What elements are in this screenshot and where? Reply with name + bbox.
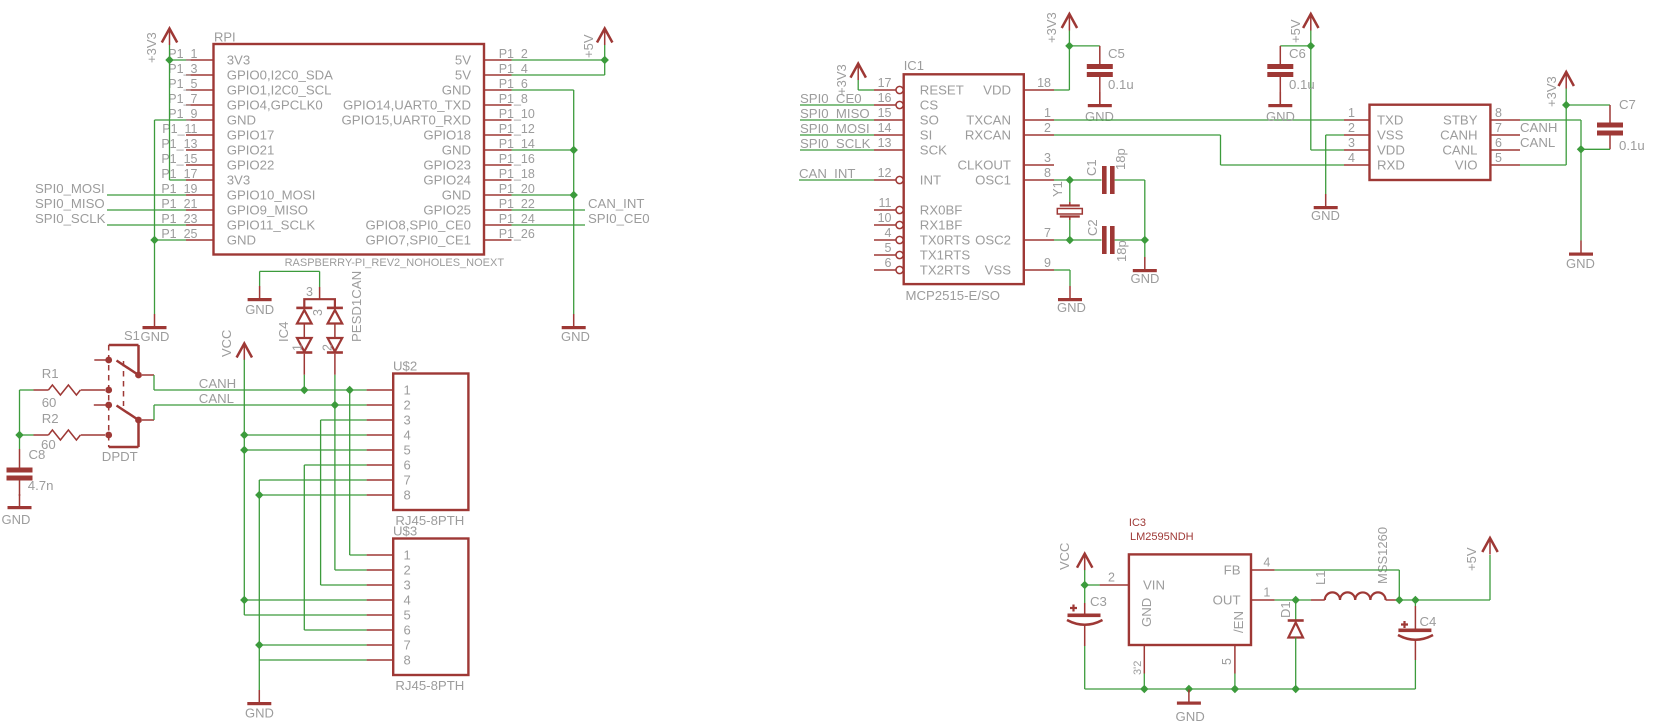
- transceiver pin 3 VDD: [1344, 149, 1370, 151]
- svg-text:2: 2: [404, 563, 411, 578]
- ground (STBY/C7): [1580, 241, 1582, 253]
- ground (C5): [1099, 92, 1101, 104]
- transceiver pin 1 TXD: [1344, 119, 1370, 121]
- junction VCC/U$3 pin4: [240, 596, 248, 604]
- RPI pin P1_19 (GPIO10_MOSI): [186, 194, 214, 196]
- svg-text:5: 5: [885, 241, 892, 255]
- svg-text:MSS1260: MSS1260: [1375, 527, 1390, 584]
- svg-text:INT: INT: [920, 173, 941, 188]
- junction P1_1: [165, 56, 173, 64]
- U$2 pin 4: [367, 434, 394, 436]
- svg-text:P1_12: P1_12: [499, 122, 535, 136]
- svg-text:IC4: IC4: [276, 321, 291, 342]
- wire U$2 pin6 to U$3 pin6: [304, 464, 366, 466]
- wire SPI0_CE0 from P1_24: [512, 224, 586, 226]
- junction U$2 pin8/gnd: [255, 491, 263, 499]
- wire CAN_INT from P1_22: [512, 209, 586, 211]
- S1 contacts: [105, 357, 112, 364]
- svg-text:0.1u: 0.1u: [1108, 77, 1134, 92]
- U$2 pin 5: [367, 449, 394, 451]
- IC1 pin 7 OSC2: [1024, 239, 1054, 241]
- RPI pin P1_5 (GPIO1,I2C0_SCL): [186, 89, 214, 91]
- svg-text:CANL: CANL: [1520, 135, 1555, 150]
- svg-text:VCC: VCC: [219, 330, 234, 357]
- svg-text:CANH: CANH: [1440, 128, 1477, 143]
- svg-text:GND: GND: [442, 83, 471, 98]
- IC3 pin 1 OUT: [1251, 599, 1275, 601]
- junction GND pin: [1140, 685, 1148, 693]
- svg-text:P1_15: P1_15: [161, 152, 197, 166]
- wire VIO to +3V3: [1520, 164, 1566, 166]
- svg-text:GND: GND: [442, 143, 471, 158]
- RPI pin P1_13 (GPIO21): [186, 149, 214, 151]
- RPI pin P1_2 (5V): [484, 59, 512, 61]
- svg-text:SI: SI: [920, 128, 932, 143]
- wire OSC1 node: [1054, 179, 1102, 181]
- RPI pin P1_14 (GND): [484, 149, 512, 151]
- svg-text:18p: 18p: [1114, 240, 1129, 262]
- IC1 pin 14 SI: [874, 134, 904, 136]
- wire GND P1_9/P1_25: [155, 119, 187, 121]
- RPI pin P1_4 (5V): [484, 74, 512, 76]
- svg-text:VDD: VDD: [1377, 143, 1405, 158]
- svg-text:8: 8: [404, 653, 411, 668]
- svg-text:GPIO24: GPIO24: [423, 173, 471, 188]
- svg-text:3'2: 3'2: [1132, 661, 1144, 675]
- connector U$3 RJ45-8PTH: [393, 539, 468, 676]
- svg-text:0.1u: 0.1u: [1619, 138, 1645, 153]
- RPI pin P1_7 (GPIO4,GPCLK0): [186, 104, 214, 106]
- svg-text:GND: GND: [227, 233, 256, 248]
- junction R2/C8: [15, 431, 23, 439]
- wire VSS to ground: [1326, 134, 1344, 136]
- svg-text:TX1RTS: TX1RTS: [920, 248, 971, 263]
- svg-text:P1_23: P1_23: [161, 212, 197, 226]
- svg-text:6: 6: [885, 256, 892, 270]
- wire GND P1_6/P1_14/P1_20: [512, 89, 574, 91]
- svg-text:GPIO10_MOSI: GPIO10_MOSI: [227, 188, 316, 203]
- junction C4: [1411, 596, 1419, 604]
- svg-text:U$2: U$2: [393, 359, 417, 374]
- wire OUT node: [1275, 599, 1311, 601]
- svg-text:VIO: VIO: [1455, 158, 1478, 173]
- svg-text:12: 12: [878, 166, 892, 180]
- svg-text:CANH: CANH: [199, 376, 236, 391]
- svg-text:P1_6: P1_6: [499, 77, 528, 91]
- junction OSC2/Y1: [1066, 236, 1074, 244]
- U$2 pin 2: [367, 404, 394, 406]
- capacitor C3 (electrolytic): [1084, 585, 1086, 603]
- svg-text:10: 10: [878, 211, 892, 225]
- junction C7/GND: [1577, 145, 1585, 153]
- svg-text:P1_20: P1_20: [499, 182, 535, 196]
- svg-text:13: 13: [878, 136, 892, 150]
- svg-text:15: 15: [878, 106, 892, 120]
- svg-text:7: 7: [404, 473, 411, 488]
- svg-text:GPIO21: GPIO21: [227, 143, 275, 158]
- wire VCC to U$2 pin5: [244, 449, 366, 451]
- svg-text:1: 1: [404, 383, 411, 398]
- ground (RJ45 chain): [258, 690, 260, 702]
- junction CANH/U$3 branch: [346, 386, 354, 394]
- svg-text:3: 3: [404, 413, 411, 428]
- RPI pin P1_1 (3V3): [186, 59, 214, 61]
- RPI pin P1_25 (GND): [186, 239, 214, 241]
- svg-text:GPIO1,I2C0_SCL: GPIO1,I2C0_SCL: [227, 83, 332, 98]
- capacitor C6 0.1u: [1279, 46, 1281, 64]
- power +3V3 (right): [1559, 72, 1574, 86]
- connector U$2 RJ45-8PTH: [393, 374, 468, 511]
- ground (IC1 VSS): [1069, 286, 1071, 298]
- svg-text:GPIO23: GPIO23: [423, 158, 471, 173]
- svg-text:8: 8: [404, 488, 411, 503]
- svg-text:4: 4: [404, 593, 411, 608]
- svg-text:11: 11: [879, 196, 892, 210]
- svg-text:R2: R2: [42, 411, 59, 426]
- svg-text:C4: C4: [1420, 614, 1437, 629]
- junction U$3 pin7/gnd: [255, 641, 263, 649]
- U$3 pin 1: [367, 554, 394, 556]
- wire +3V3 to P1_1 and P1_17: [169, 45, 171, 180]
- svg-text:GND: GND: [245, 302, 274, 317]
- svg-text:3: 3: [306, 285, 313, 299]
- IC IC3: LM2595NDH: [1129, 554, 1251, 645]
- svg-text:4: 4: [404, 428, 411, 443]
- svg-text:SPI0_MOSI: SPI0_MOSI: [800, 121, 870, 136]
- svg-text:MCP2515-E/SO: MCP2515-E/SO: [906, 288, 1001, 303]
- svg-text:6: 6: [404, 623, 411, 638]
- wire pole1 to CANH: [142, 374, 154, 376]
- svg-text:DPDT: DPDT: [102, 449, 138, 464]
- ground (C8): [19, 494, 21, 506]
- transceiver pin 8 STBY: [1490, 119, 1520, 121]
- svg-text:U$3: U$3: [393, 524, 417, 539]
- svg-text:GPIO17: GPIO17: [227, 128, 275, 143]
- S1 poles: [135, 372, 142, 379]
- svg-text:P1_4: P1_4: [499, 62, 528, 76]
- junction VCC/C3: [1081, 581, 1089, 589]
- svg-text:GND: GND: [1566, 256, 1595, 271]
- transceiver pin 2 VSS: [1344, 134, 1370, 136]
- svg-text:7: 7: [1495, 121, 1502, 135]
- svg-text:7: 7: [404, 638, 411, 653]
- junction +5V: [601, 56, 609, 64]
- svg-text:1: 1: [1263, 586, 1270, 600]
- IC1 pin 5 TX1RTS: [874, 254, 896, 256]
- svg-text:OUT: OUT: [1213, 593, 1241, 608]
- svg-text:GND: GND: [1139, 598, 1154, 627]
- svg-text:C1: C1: [1084, 159, 1099, 176]
- IC1 pin 10 RX1BF: [874, 224, 896, 226]
- svg-text:7: 7: [1044, 226, 1051, 240]
- wire FB feedback: [1275, 569, 1400, 571]
- svg-text:+3V3: +3V3: [144, 32, 159, 63]
- IC1 pin 8 OSC1: [1024, 179, 1054, 181]
- svg-text:P1_10: P1_10: [499, 107, 535, 121]
- junction P1_25: [150, 236, 158, 244]
- svg-text:TXD: TXD: [1377, 113, 1403, 128]
- svg-text:SCK: SCK: [920, 143, 947, 158]
- RPI pin P1_15 (GPIO22): [186, 164, 214, 166]
- svg-text:GPIO18: GPIO18: [423, 128, 471, 143]
- wire CANH to U$3 pin1: [349, 390, 351, 555]
- svg-text:C7: C7: [1619, 97, 1636, 112]
- svg-text:4: 4: [885, 226, 892, 240]
- capacitor C2 18p: [1102, 226, 1107, 254]
- svg-text:9: 9: [1044, 256, 1051, 270]
- junction C1/C2: [1141, 236, 1149, 244]
- svg-text:CANL: CANL: [1442, 143, 1477, 158]
- junction +5V/C6: [1307, 42, 1315, 50]
- wire PESD pin3 to ground: [260, 270, 320, 272]
- svg-text:60: 60: [42, 395, 57, 410]
- svg-text:GND: GND: [1131, 271, 1160, 286]
- svg-text:SPI0_CE0: SPI0_CE0: [588, 211, 650, 226]
- junction D1 bottom: [1292, 685, 1300, 693]
- svg-text:VIN: VIN: [1143, 578, 1165, 593]
- U$2 pin 3: [367, 419, 394, 421]
- svg-text:RJ45-8PTH: RJ45-8PTH: [395, 678, 464, 693]
- junction VCC/U$2 pin4: [240, 431, 248, 439]
- RPI pin P1_17 (3V3): [186, 179, 214, 181]
- svg-text:VSS: VSS: [1377, 128, 1404, 143]
- svg-text:+5V: +5V: [1288, 19, 1303, 43]
- svg-text:SO: SO: [920, 113, 939, 128]
- U$3 pin 6: [367, 629, 394, 631]
- ground (IC3): [1188, 690, 1190, 702]
- svg-text:FB: FB: [1224, 563, 1241, 578]
- capacitor C7 0.1u: [1566, 104, 1610, 106]
- junction L1/FB: [1395, 596, 1403, 604]
- RPI pin P1_21 (GPIO9_MISO): [186, 209, 214, 211]
- svg-text:GND: GND: [245, 706, 274, 721]
- svg-text:3: 3: [1348, 136, 1355, 150]
- U$2 pin 6: [367, 464, 394, 466]
- RPI pin P1_23 (GPIO11_SCLK): [186, 224, 214, 226]
- svg-text:GND: GND: [1085, 109, 1114, 124]
- svg-text:2: 2: [321, 344, 335, 351]
- svg-text:P1_18: P1_18: [499, 167, 535, 181]
- junction VDD/+3V3: [1065, 42, 1073, 50]
- IC U1: MCP2515-E/SO (IC1): [904, 74, 1024, 284]
- svg-text:IC3: IC3: [1129, 517, 1146, 529]
- svg-text:C2: C2: [1085, 219, 1100, 236]
- IC1 pin 4 TX0RTS: [874, 239, 896, 241]
- wire U$3 pin7: [259, 644, 366, 646]
- svg-text:LM2595NDH: LM2595NDH: [1130, 531, 1194, 543]
- svg-text:2: 2: [1108, 571, 1115, 585]
- svg-text:P1_24: P1_24: [499, 212, 535, 226]
- wire OSC2 node: [1054, 239, 1102, 241]
- power VCC (RJ45 power): [237, 344, 252, 358]
- U$3 pin 2: [367, 569, 394, 571]
- IC U2: CAN transceiver (MCP2551): [1370, 105, 1491, 180]
- svg-text:RXD: RXD: [1377, 158, 1405, 173]
- IC1 pin 6 TX2RTS: [874, 269, 896, 271]
- IC3 pin 4 FB: [1251, 569, 1275, 571]
- svg-text:P1_19: P1_19: [161, 182, 197, 196]
- svg-text:+5V: +5V: [581, 34, 596, 58]
- ground (C1/C2): [1144, 240, 1146, 257]
- svg-text:P1_11: P1_11: [162, 122, 197, 136]
- junction +3V3/C7: [1562, 101, 1570, 109]
- wire U$3 pin8: [259, 659, 366, 661]
- svg-text:14: 14: [878, 121, 892, 135]
- svg-text:P1_3: P1_3: [168, 62, 197, 76]
- PESD diode pair pin 1: [296, 307, 312, 310]
- U$2 pin 1: [367, 389, 394, 391]
- ground (below RPi left): [154, 314, 156, 326]
- svg-text:8: 8: [1044, 166, 1051, 180]
- svg-text:Y1: Y1: [1050, 181, 1065, 197]
- svg-text:GND: GND: [442, 188, 471, 203]
- IC1 pin 12 INT: [874, 179, 896, 181]
- IC1 pin 1 TXCAN: [1024, 119, 1054, 121]
- svg-text:RESET: RESET: [920, 83, 964, 98]
- RPI pin P1_12 (GPIO18): [484, 134, 512, 136]
- svg-text:OSC2: OSC2: [975, 233, 1011, 248]
- IC1 pin 18 VDD: [1024, 89, 1054, 91]
- junction OUT/D1: [1292, 596, 1300, 604]
- wire U$2 pin8: [259, 494, 366, 496]
- RPI pin P1_18 (GPIO24): [484, 179, 512, 181]
- IC3 pin 3 GND (bottom): [1143, 645, 1145, 674]
- svg-text:P1_17: P1_17: [161, 167, 197, 181]
- svg-text:GND: GND: [1057, 300, 1086, 315]
- svg-text:GND: GND: [141, 329, 170, 344]
- wire P1_2 to +5V: [512, 59, 605, 61]
- svg-text:CAN_INT: CAN_INT: [588, 196, 644, 211]
- U$3 pin 3: [367, 584, 394, 586]
- junction /EN pin: [1231, 685, 1239, 693]
- capacitor C5 0.1u: [1099, 46, 1101, 64]
- wire TXCAN to TXD: [1054, 119, 1344, 121]
- svg-text:GPIO25: GPIO25: [423, 203, 471, 218]
- IC3 pin 5 /EN (bottom): [1234, 645, 1236, 674]
- svg-text:GPIO7,SPI0_CE1: GPIO7,SPI0_CE1: [365, 233, 471, 248]
- svg-text:TX0RTS: TX0RTS: [920, 233, 971, 248]
- ground (below RPi right): [573, 314, 575, 326]
- svg-text:RASPBERRY-PI_REV2_NOHOLES_NOEX: RASPBERRY-PI_REV2_NOHOLES_NOEXT: [285, 257, 505, 269]
- svg-text:P1_9: P1_9: [168, 107, 197, 121]
- junction gnd symbol: [1185, 685, 1193, 693]
- svg-text:SPI0_SCLK: SPI0_SCLK: [35, 211, 106, 226]
- svg-text:GND: GND: [1266, 109, 1295, 124]
- S1 contact stubs: [94, 359, 108, 361]
- IC1 pin 16 CS: [874, 104, 896, 106]
- U$3 pin 5: [367, 614, 394, 616]
- svg-text:1: 1: [1044, 106, 1051, 120]
- wire RXCAN to RXD: [1054, 134, 1221, 136]
- U$2 pin 8: [367, 494, 394, 496]
- svg-text:STBY: STBY: [1443, 113, 1478, 128]
- RPI pin P1_6 (GND): [484, 89, 512, 91]
- ground (C6): [1279, 92, 1281, 104]
- IC1 pin 13 SCK: [874, 149, 904, 151]
- svg-text:GPIO0,I2C0_SDA: GPIO0,I2C0_SDA: [227, 68, 333, 83]
- U$3 pin 4: [367, 599, 394, 601]
- svg-text:VDD: VDD: [983, 83, 1011, 98]
- svg-text:GPIO8,SPI0_CE0: GPIO8,SPI0_CE0: [365, 218, 471, 233]
- RPI pin P1_26 (GPIO7,SPI0_CE1): [484, 239, 512, 241]
- wire ground rail: [1085, 688, 1416, 690]
- svg-text:2: 2: [1044, 121, 1051, 135]
- svg-text:S1: S1: [124, 328, 140, 343]
- wire pole2 to CANL: [142, 419, 154, 421]
- IC1 pin 3 CLKOUT: [1024, 164, 1054, 166]
- ground (transceiver VSS): [1325, 194, 1327, 206]
- svg-text:C8: C8: [29, 447, 46, 462]
- wire VCC to U$2 pin4: [244, 434, 366, 436]
- RPI pin P1_10 (GPIO15,UART0_RXD): [484, 119, 512, 121]
- svg-text:+3V3: +3V3: [1544, 76, 1559, 107]
- svg-text:P1_16: P1_16: [499, 152, 535, 166]
- svg-text:GPIO11_SCLK: GPIO11_SCLK: [227, 218, 316, 233]
- svg-text:+5V: +5V: [1464, 547, 1479, 571]
- svg-text:18: 18: [1037, 76, 1051, 90]
- svg-text:2: 2: [404, 398, 411, 413]
- svg-text:P1_13: P1_13: [161, 137, 197, 151]
- power +5V (RPi): [597, 29, 612, 43]
- RPI pin P1_20 (GND): [484, 194, 512, 196]
- wire U$2 pin7 gnd chain: [259, 479, 366, 481]
- svg-text:C6: C6: [1289, 46, 1306, 61]
- IC1 pin 11 RX0BF: [874, 209, 896, 211]
- svg-text:GPIO15,UART0_RXD: GPIO15,UART0_RXD: [342, 113, 471, 128]
- junction P1_14: [570, 146, 578, 154]
- svg-text:5V: 5V: [455, 68, 471, 83]
- svg-text:P1_2: P1_2: [499, 47, 528, 61]
- svg-text:R1: R1: [42, 366, 59, 381]
- svg-text:6: 6: [1495, 136, 1502, 150]
- svg-text:5: 5: [404, 608, 411, 623]
- power +5V (above C6): [1303, 14, 1318, 28]
- IC1 pin 17 RESET: [874, 89, 896, 91]
- IC1 pin 9 VSS: [1024, 269, 1054, 271]
- power +5V (IC3 output): [1489, 555, 1491, 600]
- transceiver pin 4 RXD: [1344, 164, 1370, 166]
- capacitor C1 18p: [1102, 166, 1107, 194]
- svg-text:P1_14: P1_14: [499, 137, 535, 151]
- RPI pin P1_3 (GPIO0,I2C0_SDA): [186, 74, 214, 76]
- transceiver pin 5 VIO: [1490, 164, 1520, 166]
- svg-text:3V3: 3V3: [227, 53, 250, 68]
- svg-text:17: 17: [878, 76, 892, 90]
- svg-text:RXCAN: RXCAN: [965, 128, 1011, 143]
- svg-text:6: 6: [404, 458, 411, 473]
- junction VCC/U$2 pin5: [240, 446, 248, 454]
- svg-text:4: 4: [1348, 151, 1355, 165]
- svg-text:CANH: CANH: [1520, 120, 1557, 135]
- svg-text:1: 1: [1348, 106, 1355, 120]
- svg-text:D1: D1: [1278, 601, 1293, 618]
- RPI pin P1_8 (GPIO14,UART0_TXD): [484, 104, 512, 106]
- junction P1_20: [570, 191, 578, 199]
- svg-text:CANL: CANL: [199, 391, 234, 406]
- svg-text:3: 3: [404, 578, 411, 593]
- svg-text:GPIO14,UART0_TXD: GPIO14,UART0_TXD: [343, 98, 471, 113]
- IC1 pin 2 RXCAN: [1024, 134, 1054, 136]
- svg-text:CLKOUT: CLKOUT: [958, 158, 1012, 173]
- svg-text:P1_21: P1_21: [161, 197, 197, 211]
- RPI pin P1_11 (GPIO17): [186, 134, 214, 136]
- svg-text:SPI0_SCLK: SPI0_SCLK: [800, 136, 871, 151]
- svg-text:P1_1: P1_1: [168, 47, 197, 61]
- svg-text:SPI0_MISO: SPI0_MISO: [35, 196, 105, 211]
- wire CANL to U$3 pin2: [334, 405, 336, 570]
- IC1 pin 15 SO: [874, 119, 904, 121]
- power VCC (IC3 input): [1077, 554, 1092, 568]
